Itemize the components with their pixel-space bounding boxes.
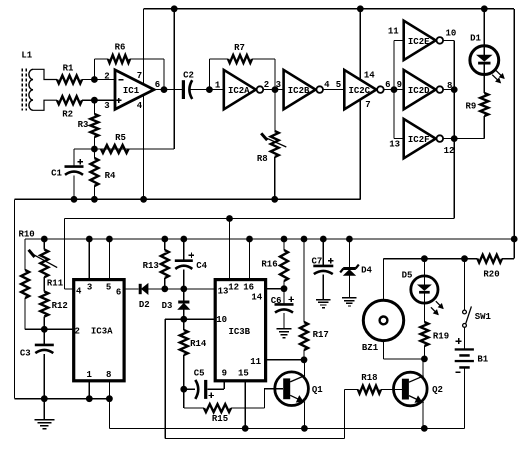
svg-text:4: 4 [76,287,82,297]
svg-text:R9: R9 [465,102,476,112]
svg-text:11: 11 [388,27,399,37]
svg-text:D2: D2 [139,300,150,310]
svg-text:IC3A: IC3A [91,327,113,337]
svg-text:C1: C1 [51,169,62,179]
svg-text:3: 3 [87,282,92,292]
svg-text:13: 13 [218,286,229,296]
svg-text:C2: C2 [183,71,194,81]
svg-text:2: 2 [104,71,109,81]
svg-text:Q1: Q1 [312,385,323,395]
svg-text:R18: R18 [361,373,377,383]
svg-text:R4: R4 [105,171,116,181]
svg-text:12: 12 [228,282,239,292]
svg-text:SW1: SW1 [475,312,492,322]
svg-text:4: 4 [137,101,143,111]
svg-text:14: 14 [364,71,375,81]
svg-text:B1: B1 [477,355,488,365]
svg-text:R19: R19 [433,332,449,342]
svg-text:15: 15 [238,369,249,379]
svg-text:14: 14 [251,292,262,302]
svg-text:5: 5 [336,80,341,90]
svg-text:IC2A: IC2A [228,86,250,96]
svg-text:R10: R10 [18,230,34,240]
svg-text:6: 6 [385,80,390,90]
svg-text:IC3B: IC3B [228,327,250,337]
svg-text:D1: D1 [470,34,481,44]
svg-text:C7: C7 [311,256,322,266]
svg-text:D4: D4 [361,266,372,276]
svg-text:R5: R5 [115,133,126,143]
svg-text:R16: R16 [261,260,277,270]
svg-text:IC2D: IC2D [408,86,430,96]
svg-text:7: 7 [137,71,142,81]
svg-text:IC2E: IC2E [408,37,430,47]
svg-text:3: 3 [104,101,109,111]
svg-text:2: 2 [264,80,269,90]
svg-text:IC1: IC1 [123,86,140,96]
svg-text:12: 12 [444,146,455,156]
svg-text:3: 3 [276,80,281,90]
svg-text:BZ1: BZ1 [362,343,379,353]
svg-text:C6: C6 [271,296,282,306]
svg-text:C3: C3 [20,349,31,359]
svg-text:R3: R3 [78,120,89,130]
svg-text:R13: R13 [143,261,159,271]
svg-text:IC2F: IC2F [408,135,430,145]
svg-text:R6: R6 [115,43,126,53]
svg-text:10: 10 [216,315,227,325]
svg-text:13: 13 [389,140,400,150]
svg-text:Q2: Q2 [432,385,443,395]
svg-text:9: 9 [222,369,227,379]
svg-text:R8: R8 [257,154,268,164]
svg-text:D3: D3 [162,301,173,311]
svg-text:2: 2 [74,327,79,337]
svg-text:9: 9 [397,80,402,90]
svg-text:C4: C4 [196,261,207,271]
svg-text:8: 8 [447,81,452,91]
svg-text:IC2C: IC2C [348,86,370,96]
svg-text:6: 6 [155,80,160,90]
svg-text:R11: R11 [47,279,64,289]
svg-text:R12: R12 [52,301,68,311]
svg-text:C5: C5 [194,369,205,379]
svg-text:10: 10 [445,29,456,39]
svg-text:D5: D5 [402,271,413,281]
svg-text:R15: R15 [212,414,228,424]
svg-text:R17: R17 [313,330,329,340]
svg-text:L1: L1 [21,51,32,61]
svg-text:1: 1 [215,80,221,90]
svg-text:5: 5 [106,282,111,292]
svg-text:11: 11 [250,357,261,367]
svg-text:R14: R14 [190,339,207,349]
svg-text:4: 4 [324,80,330,90]
svg-text:R20: R20 [483,270,499,280]
svg-text:R7: R7 [234,43,245,53]
svg-text:16: 16 [243,282,254,292]
svg-text:7: 7 [365,100,370,110]
svg-text:1: 1 [86,370,92,380]
svg-text:R2: R2 [62,110,73,120]
svg-text:6: 6 [116,288,121,298]
svg-text:R1: R1 [63,64,74,74]
svg-text:IC2B: IC2B [288,86,310,96]
svg-text:8: 8 [106,370,111,380]
